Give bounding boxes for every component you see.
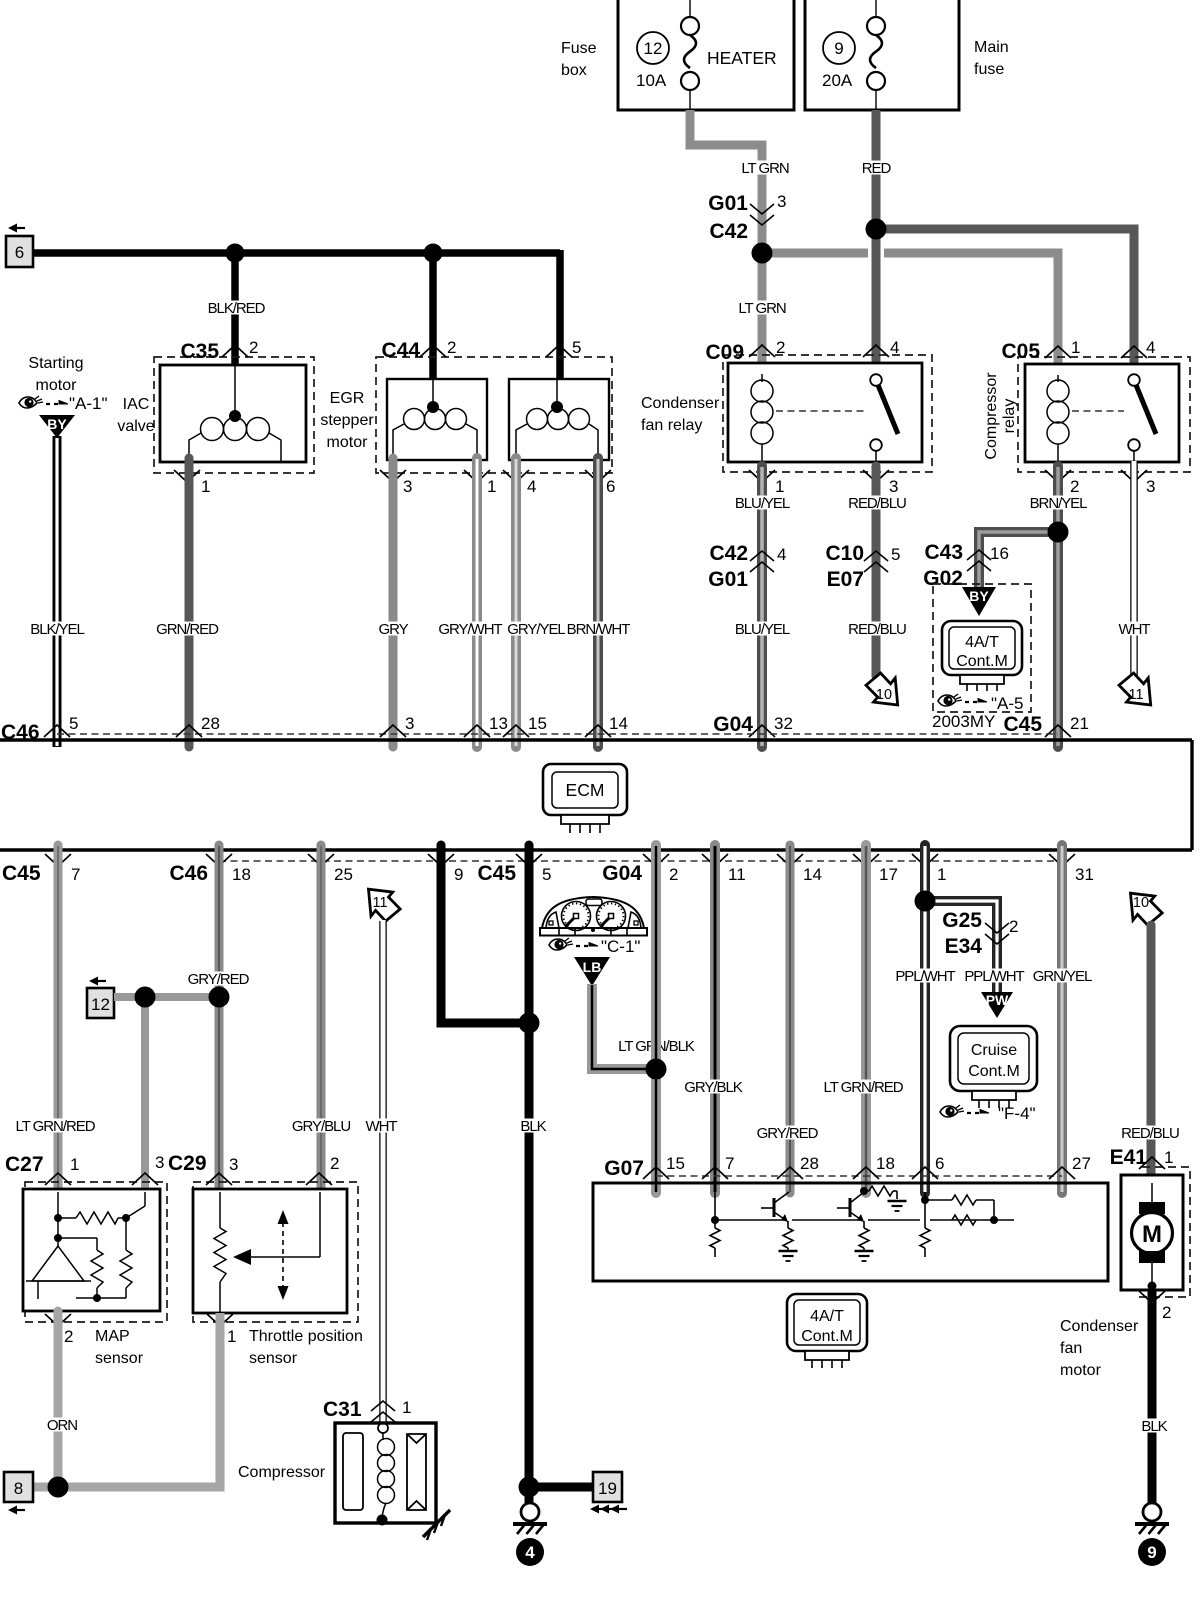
svg-text:WHT: WHT bbox=[1118, 621, 1150, 638]
svg-text:LT GRN/RED: LT GRN/RED bbox=[824, 1079, 904, 1096]
svg-text:1: 1 bbox=[201, 477, 210, 496]
svg-text:PW: PW bbox=[986, 992, 1009, 1008]
svg-text:sensor: sensor bbox=[95, 1350, 144, 1367]
svg-text:3: 3 bbox=[403, 477, 412, 496]
wire GRN/YEL ECM 31 to G07 27 bbox=[1031, 845, 1093, 1193]
PW triangle bbox=[981, 992, 1013, 1018]
junction PPL/WHT bbox=[915, 891, 936, 912]
wire junction to C27 pin 3 bbox=[141, 997, 149, 1196]
svg-text:C42: C42 bbox=[709, 542, 748, 565]
wire GRY/RED ECM 14 to G07 28 bbox=[755, 845, 820, 1193]
EGR coil box 2 bbox=[509, 379, 609, 460]
condenser fan motor label bbox=[1060, 1318, 1139, 1379]
svg-text:28: 28 bbox=[800, 1154, 819, 1173]
junction ORN bbox=[48, 1477, 69, 1498]
svg-text:28: 28 bbox=[201, 714, 220, 733]
svg-text:fan: fan bbox=[1060, 1340, 1082, 1357]
BY triangle (4A/T) bbox=[962, 587, 996, 616]
svg-text:2: 2 bbox=[330, 1154, 339, 1173]
node 19 box with triple arrow bbox=[590, 1472, 627, 1514]
svg-text:C46: C46 bbox=[1, 721, 40, 744]
svg-text:1: 1 bbox=[70, 1155, 79, 1174]
C31 chassis ground bbox=[423, 1510, 450, 1540]
svg-text:Cont.M: Cont.M bbox=[801, 1328, 853, 1345]
svg-text:1: 1 bbox=[1164, 1148, 1173, 1167]
wire LT GRN from fuse 12 to C09 pin 2 bbox=[690, 110, 790, 367]
C05 internal dashed link bbox=[1072, 410, 1124, 412]
svg-text:Throttle position: Throttle position bbox=[249, 1328, 363, 1345]
compressor relay C05 bbox=[983, 338, 1190, 472]
C09 switch bbox=[870, 374, 898, 462]
svg-text:C10: C10 bbox=[825, 542, 864, 565]
wire BLK ECM 9 joining ECM 5 bbox=[441, 845, 529, 1023]
C27 interior circuit bbox=[26, 1192, 145, 1299]
svg-text:GRY: GRY bbox=[378, 621, 408, 638]
wire PPL/WHT ECM 1 to G07 6 bbox=[894, 845, 957, 1193]
C31 coil bbox=[378, 1433, 395, 1518]
wire WHT C05-3 to arrow 11 bbox=[1117, 461, 1152, 676]
E41 condenser fan motor bbox=[1110, 1146, 1190, 1297]
junction bus/C44 bbox=[424, 244, 443, 263]
svg-text:BLK/YEL: BLK/YEL bbox=[30, 621, 84, 638]
wire BLK E41-2 to ground 9 bbox=[1140, 1290, 1169, 1503]
node 8 box with arrow bbox=[4, 1472, 33, 1515]
wire GRN/RED C35 pin1 to C46 pin 28 bbox=[155, 458, 221, 747]
motor M symbol bbox=[1132, 1183, 1173, 1291]
instrument cluster icon bbox=[540, 897, 647, 936]
wire from node 12 to sensors bbox=[114, 993, 219, 1001]
fuse 12 10A HEATER bbox=[636, 0, 777, 110]
G07 internal: pin7 node and bus bbox=[715, 1192, 1014, 1228]
svg-text:BLK: BLK bbox=[1141, 1418, 1167, 1435]
svg-text:G25: G25 bbox=[942, 909, 982, 932]
svg-text:GRY/BLU: GRY/BLU bbox=[292, 1118, 350, 1135]
svg-text:fan relay: fan relay bbox=[641, 417, 702, 434]
connector C43/G02 pin 16 bbox=[923, 541, 1009, 590]
connector C45 pin 21 bbox=[1003, 713, 1088, 737]
svg-text:3: 3 bbox=[229, 1155, 238, 1174]
wire GRY/BLU ECM 25 to C29 pin 2 bbox=[290, 845, 351, 1196]
fuse 9 20A bbox=[822, 0, 885, 110]
svg-text:C45: C45 bbox=[1003, 713, 1042, 736]
node 6 box with arrow bbox=[6, 224, 33, 268]
svg-text:G02: G02 bbox=[923, 567, 963, 590]
svg-text:M: M bbox=[1142, 1221, 1162, 1248]
svg-text:RED/BLU: RED/BLU bbox=[1121, 1125, 1179, 1142]
svg-text:stepper: stepper bbox=[320, 412, 374, 429]
Q2 emitter resistor and ground bbox=[859, 1228, 869, 1248]
svg-text:G04: G04 bbox=[713, 713, 753, 736]
junction BRN/YEL branch bbox=[1048, 522, 1069, 543]
compressor C31 bbox=[238, 1398, 436, 1523]
fuse box (left) bbox=[561, 0, 794, 110]
svg-text:Compressor: Compressor bbox=[238, 1464, 326, 1481]
svg-text:16: 16 bbox=[990, 544, 1009, 563]
C44 bottom pins 3 1 4 6 bbox=[380, 470, 615, 496]
svg-text:4A/T: 4A/T bbox=[965, 634, 999, 651]
svg-text:BY: BY bbox=[969, 588, 989, 604]
svg-text:4: 4 bbox=[890, 338, 899, 357]
wire GRY/BLK ECM 11 to G07 7 bbox=[683, 845, 744, 1193]
svg-text:motor: motor bbox=[1060, 1362, 1102, 1379]
svg-text:C29: C29 bbox=[168, 1152, 207, 1175]
wire RED/BLU arrow 10 to E41 pin 1 bbox=[1120, 925, 1181, 1183]
svg-text:relay: relay bbox=[1001, 399, 1018, 434]
svg-text:2: 2 bbox=[447, 338, 456, 357]
svg-text:Main: Main bbox=[974, 39, 1009, 56]
wire GRY C44-3 to ECM 3 bbox=[377, 458, 410, 747]
connector G25/E34 pin 2 bbox=[942, 909, 1018, 958]
svg-text:C27: C27 bbox=[5, 1153, 44, 1176]
svg-text:19: 19 bbox=[598, 1479, 617, 1498]
svg-text:2: 2 bbox=[1162, 1303, 1171, 1322]
C29 interior potentiometer bbox=[220, 1192, 320, 1313]
svg-text:10: 10 bbox=[1133, 895, 1149, 911]
G07 connector row bbox=[604, 1154, 1091, 1180]
starting motor label bbox=[28, 355, 83, 394]
wire BRN/YEL C05-2 to C45 21 bbox=[1028, 466, 1089, 747]
svg-text:13: 13 bbox=[489, 714, 508, 733]
svg-text:BRN/YEL: BRN/YEL bbox=[1030, 495, 1088, 512]
wire RED/BLU C09-3 to arrow 10 bbox=[847, 466, 908, 676]
svg-text:C46: C46 bbox=[169, 862, 208, 885]
junction dots on node 12 wire bbox=[135, 987, 156, 1008]
svg-text:9: 9 bbox=[1147, 1543, 1156, 1562]
wire WHT arrow 11 to C31 pin 1 bbox=[364, 920, 399, 1424]
C31 coil ground dot bbox=[377, 1515, 388, 1526]
IAC valve C35 bbox=[117, 338, 314, 473]
svg-text:5: 5 bbox=[542, 865, 551, 884]
svg-text:BLK/RED: BLK/RED bbox=[208, 300, 266, 317]
pin 6 node and resistor network bbox=[925, 1192, 994, 1228]
svg-text:Fuse: Fuse bbox=[561, 40, 597, 57]
svg-text:3: 3 bbox=[777, 192, 786, 211]
svg-text:C42: C42 bbox=[709, 220, 748, 243]
svg-text:fuse: fuse bbox=[974, 61, 1004, 78]
svg-text:2: 2 bbox=[64, 1327, 73, 1346]
svg-text:3: 3 bbox=[889, 477, 898, 496]
svg-text:box: box bbox=[561, 62, 587, 79]
junction on LT GRN wire bbox=[752, 243, 773, 264]
C29 dashed adjust arrow bbox=[278, 1210, 289, 1300]
svg-text:motor: motor bbox=[36, 377, 78, 394]
C09 pins 1 3 bbox=[749, 470, 898, 496]
svg-text:valve: valve bbox=[117, 418, 154, 435]
svg-text:PPL/WHT: PPL/WHT bbox=[895, 968, 955, 985]
svg-text:5: 5 bbox=[69, 714, 78, 733]
transistor Q2 bbox=[837, 1192, 864, 1228]
svg-text:7: 7 bbox=[725, 1154, 734, 1173]
svg-text:Compressor: Compressor bbox=[983, 372, 1000, 460]
G07 box bbox=[593, 1183, 1108, 1281]
C35 pin 1 bbox=[174, 470, 210, 496]
BY triangle (starting motor) bbox=[39, 415, 75, 438]
ECM module icon bbox=[543, 764, 627, 833]
page arrow 11 (top) bbox=[1119, 673, 1151, 705]
connector C10/E07 pin 5 bbox=[825, 542, 900, 591]
svg-text:32: 32 bbox=[774, 714, 793, 733]
svg-text:"A-5: "A-5 bbox=[991, 694, 1024, 713]
svg-text:Cont.M: Cont.M bbox=[956, 653, 1008, 670]
svg-text:5: 5 bbox=[572, 338, 581, 357]
svg-text:BLK: BLK bbox=[520, 1118, 546, 1135]
transistor Q1 bbox=[761, 1192, 789, 1228]
svg-text:E07: E07 bbox=[827, 568, 864, 591]
connector C42/G01 pin 4 bbox=[708, 542, 786, 591]
svg-text:4A/T: 4A/T bbox=[810, 1308, 844, 1325]
wire BRN/WHT C44-6 to ECM 14 bbox=[565, 458, 632, 747]
svg-text:12: 12 bbox=[91, 995, 110, 1014]
C31 interior bbox=[343, 1423, 426, 1510]
svg-text:9: 9 bbox=[454, 865, 463, 884]
Q1 emitter resistor and ground bbox=[783, 1228, 793, 1248]
node 12 box with arrow bbox=[87, 977, 114, 1019]
svg-text:7: 7 bbox=[71, 865, 80, 884]
svg-text:6: 6 bbox=[935, 1154, 944, 1173]
svg-text:LT GRN/RED: LT GRN/RED bbox=[16, 1118, 96, 1135]
svg-text:10A: 10A bbox=[636, 71, 667, 90]
wire RED branch to C05 pin 4 bbox=[876, 229, 1134, 368]
svg-text:C44: C44 bbox=[381, 339, 420, 362]
svg-text:2: 2 bbox=[669, 865, 678, 884]
svg-text:2: 2 bbox=[776, 338, 785, 357]
MAP sensor label bbox=[95, 1328, 144, 1367]
svg-text:GRN/YEL: GRN/YEL bbox=[1033, 968, 1092, 985]
svg-text:E34: E34 bbox=[945, 935, 983, 958]
condenser fan relay C09 bbox=[641, 338, 932, 472]
ECM top line C46 row bbox=[0, 714, 1192, 744]
svg-text:GRY/WHT: GRY/WHT bbox=[438, 621, 502, 638]
svg-text:HEATER: HEATER bbox=[707, 48, 777, 68]
svg-text:4: 4 bbox=[527, 477, 536, 496]
wire GRY/YEL C44-4 to ECM 15 bbox=[506, 458, 567, 747]
svg-text:2: 2 bbox=[1070, 477, 1079, 496]
svg-text:LT GRN: LT GRN bbox=[738, 300, 786, 317]
connector G01/C42 pin 3 bbox=[708, 192, 786, 243]
svg-text:18: 18 bbox=[232, 865, 251, 884]
wire LT GRN/BLK ECM 2 to G07 15 bbox=[651, 845, 661, 1193]
svg-text:9: 9 bbox=[834, 39, 843, 58]
svg-text:ECM: ECM bbox=[566, 780, 605, 800]
C27 pin 2 bbox=[45, 1314, 73, 1346]
junction BLK wires bbox=[519, 1013, 540, 1034]
page arrow 10 (bottom) bbox=[1131, 893, 1163, 925]
svg-text:27: 27 bbox=[1072, 1154, 1091, 1173]
svg-text:14: 14 bbox=[803, 865, 822, 884]
svg-text:11: 11 bbox=[372, 895, 387, 911]
svg-text:C43: C43 bbox=[924, 541, 963, 564]
wire BLK ECM 5 to ground 4 bbox=[519, 845, 548, 1503]
svg-text:C05: C05 bbox=[1001, 340, 1040, 363]
svg-text:IAC: IAC bbox=[123, 396, 150, 413]
Q2 collector node and resistor to ground bbox=[860, 1187, 868, 1195]
svg-text:GRY/RED: GRY/RED bbox=[188, 971, 250, 988]
4A/T Cont.M module (top) bbox=[933, 584, 1031, 713]
svg-text:EGR: EGR bbox=[330, 390, 365, 407]
svg-text:14: 14 bbox=[609, 714, 628, 733]
svg-text:4: 4 bbox=[525, 1543, 535, 1562]
svg-text:BRN/WHT: BRN/WHT bbox=[567, 621, 631, 638]
C05 pins 2 3 bbox=[1045, 470, 1155, 496]
svg-text:LT GRN: LT GRN bbox=[741, 160, 789, 177]
wire BLK/YEL to C46 pin 5 bbox=[29, 436, 86, 747]
eye symbol C-1 bbox=[549, 937, 640, 956]
ground 4 bbox=[513, 1503, 547, 1566]
svg-text:PPL/WHT: PPL/WHT bbox=[964, 968, 1024, 985]
svg-text:"A-1": "A-1" bbox=[69, 394, 108, 413]
wire BRN/YEL branch to C43/G02 bbox=[979, 532, 1058, 590]
C05 switch bbox=[1128, 374, 1156, 462]
junction BLK ground bbox=[519, 1477, 540, 1498]
Cruise Cont.M module bbox=[950, 1026, 1037, 1108]
svg-text:18: 18 bbox=[876, 1154, 895, 1173]
svg-text:Starting: Starting bbox=[28, 355, 83, 372]
svg-text:G07: G07 bbox=[604, 1157, 644, 1180]
svg-text:4: 4 bbox=[777, 545, 786, 564]
svg-text:Condenser: Condenser bbox=[1060, 1318, 1139, 1335]
svg-text:15: 15 bbox=[528, 714, 547, 733]
svg-text:G01: G01 bbox=[708, 568, 748, 591]
wire GRY/RED C46-18 to C29 pin 3 bbox=[186, 845, 251, 1196]
svg-text:3: 3 bbox=[405, 714, 414, 733]
svg-text:C09: C09 bbox=[705, 341, 744, 364]
svg-text:motor: motor bbox=[327, 434, 369, 451]
svg-text:GRY/BLK: GRY/BLK bbox=[684, 1079, 742, 1096]
EGR stepper motor C44 bbox=[320, 338, 612, 473]
ground 9 bbox=[1135, 1503, 1169, 1566]
EGR coil box 1 bbox=[387, 379, 487, 460]
svg-text:4: 4 bbox=[1146, 338, 1155, 357]
svg-text:Cont.M: Cont.M bbox=[968, 1063, 1020, 1080]
svg-text:8: 8 bbox=[14, 1479, 23, 1498]
svg-text:2: 2 bbox=[249, 338, 258, 357]
svg-text:3: 3 bbox=[1146, 477, 1155, 496]
eye symbol A-1 bbox=[19, 394, 108, 413]
svg-text:LB: LB bbox=[583, 959, 602, 975]
svg-text:Condenser: Condenser bbox=[641, 395, 720, 412]
svg-text:C35: C35 bbox=[180, 340, 219, 363]
svg-text:20A: 20A bbox=[822, 71, 853, 90]
svg-text:BLU/YEL: BLU/YEL bbox=[735, 621, 790, 638]
svg-text:"F-4": "F-4" bbox=[998, 1104, 1036, 1123]
svg-text:12: 12 bbox=[644, 39, 663, 58]
coil top node C35 bbox=[229, 410, 241, 422]
C09 coil bbox=[751, 374, 773, 462]
svg-text:GRN/RED: GRN/RED bbox=[156, 621, 219, 638]
svg-text:ORN: ORN bbox=[47, 1417, 77, 1434]
ECM right edge bbox=[1190, 740, 1193, 850]
svg-text:25: 25 bbox=[334, 865, 353, 884]
wire PPL/WHT branch to cruise module bbox=[925, 901, 1026, 994]
svg-text:C45: C45 bbox=[2, 862, 41, 885]
fuse box (right, main fuse) bbox=[805, 0, 1009, 110]
svg-text:17: 17 bbox=[879, 865, 898, 884]
junction LB wire bbox=[646, 1059, 667, 1080]
svg-text:GRY/YEL: GRY/YEL bbox=[507, 621, 565, 638]
C09 internal dashed link bbox=[776, 410, 866, 412]
throttle position sensor label bbox=[249, 1328, 363, 1367]
C29 pin 1 bbox=[207, 1314, 236, 1346]
svg-text:BLU/YEL: BLU/YEL bbox=[735, 495, 790, 512]
svg-text:3: 3 bbox=[155, 1153, 164, 1172]
wire BLU/YEL C09-1 to G04 32 bbox=[733, 466, 791, 747]
svg-text:31: 31 bbox=[1075, 865, 1094, 884]
svg-text:BY: BY bbox=[47, 416, 67, 432]
svg-text:5: 5 bbox=[891, 545, 900, 564]
svg-text:C31: C31 bbox=[323, 1398, 362, 1421]
page arrow 10 (top) bbox=[866, 673, 898, 705]
svg-text:RED: RED bbox=[862, 160, 892, 177]
4A/T Cont.M module (bottom) bbox=[787, 1294, 867, 1368]
svg-text:21: 21 bbox=[1070, 714, 1089, 733]
wire LT GRN/RED ECM 17 to G07 18 bbox=[822, 845, 905, 1193]
connector G04 pin 32 bbox=[713, 713, 793, 737]
wire BLK/RED bus from node 6 bbox=[33, 250, 560, 382]
svg-text:2: 2 bbox=[1009, 917, 1018, 936]
svg-text:1: 1 bbox=[227, 1327, 236, 1346]
ECM bottom line C45/G04 row bbox=[0, 850, 1192, 885]
throttle position sensor C29 bbox=[168, 1152, 358, 1322]
wire LT GRN/BLK from LB to ECM 2 wire bbox=[592, 984, 696, 1069]
wire BLK junction to node 19 bbox=[529, 1483, 593, 1492]
wire LT GRN branch to C05 pin 1 bbox=[762, 253, 1058, 368]
wire ORN C27-2 to node 8 bbox=[45, 1311, 78, 1487]
C05 coil bbox=[1047, 375, 1069, 462]
junction on RED wire bbox=[866, 219, 887, 240]
svg-text:1: 1 bbox=[937, 865, 946, 884]
resistor under pin 7 bbox=[710, 1228, 720, 1248]
svg-text:11: 11 bbox=[1128, 687, 1143, 703]
svg-text:"C-1": "C-1" bbox=[601, 937, 640, 956]
MAP sensor C27 bbox=[5, 1153, 167, 1322]
svg-text:15: 15 bbox=[666, 1154, 685, 1173]
svg-text:6: 6 bbox=[606, 477, 615, 496]
svg-text:sensor: sensor bbox=[249, 1350, 298, 1367]
svg-text:MAP: MAP bbox=[95, 1328, 130, 1345]
wire node 8 to C29 pin 1 bbox=[33, 1313, 220, 1487]
wire RED from fuse 9 to C09 pin 4 bbox=[860, 110, 893, 367]
svg-text:G04: G04 bbox=[602, 862, 642, 885]
eye symbol F-4 bbox=[940, 1104, 1036, 1123]
svg-text:GRY/RED: GRY/RED bbox=[757, 1125, 819, 1142]
svg-text:1: 1 bbox=[402, 1398, 411, 1417]
svg-text:G01: G01 bbox=[708, 192, 748, 215]
svg-text:2003MY: 2003MY bbox=[932, 712, 995, 731]
svg-text:RED/BLU: RED/BLU bbox=[848, 621, 906, 638]
coil inside C35 bbox=[189, 365, 281, 462]
svg-text:1: 1 bbox=[775, 477, 784, 496]
junction bus/C35 bbox=[226, 244, 245, 263]
svg-text:6: 6 bbox=[15, 243, 24, 262]
svg-text:11: 11 bbox=[728, 865, 746, 884]
LB triangle bbox=[574, 957, 610, 986]
svg-text:1: 1 bbox=[1071, 338, 1080, 357]
svg-text:RED/BLU: RED/BLU bbox=[848, 495, 906, 512]
wire GRY/WHT C44-1 to ECM 13 bbox=[437, 458, 504, 747]
svg-text:10: 10 bbox=[876, 687, 892, 703]
E41 pin 2 bbox=[1139, 1291, 1171, 1322]
svg-text:1: 1 bbox=[487, 477, 496, 496]
svg-text:Cruise: Cruise bbox=[971, 1042, 1017, 1059]
page arrow 11 (bottom) bbox=[369, 889, 401, 921]
svg-text:WHT: WHT bbox=[365, 1118, 397, 1135]
wire LT GRN/RED C45-7 to C27 pin 1 bbox=[14, 845, 97, 1196]
svg-text:C45: C45 bbox=[477, 862, 516, 885]
